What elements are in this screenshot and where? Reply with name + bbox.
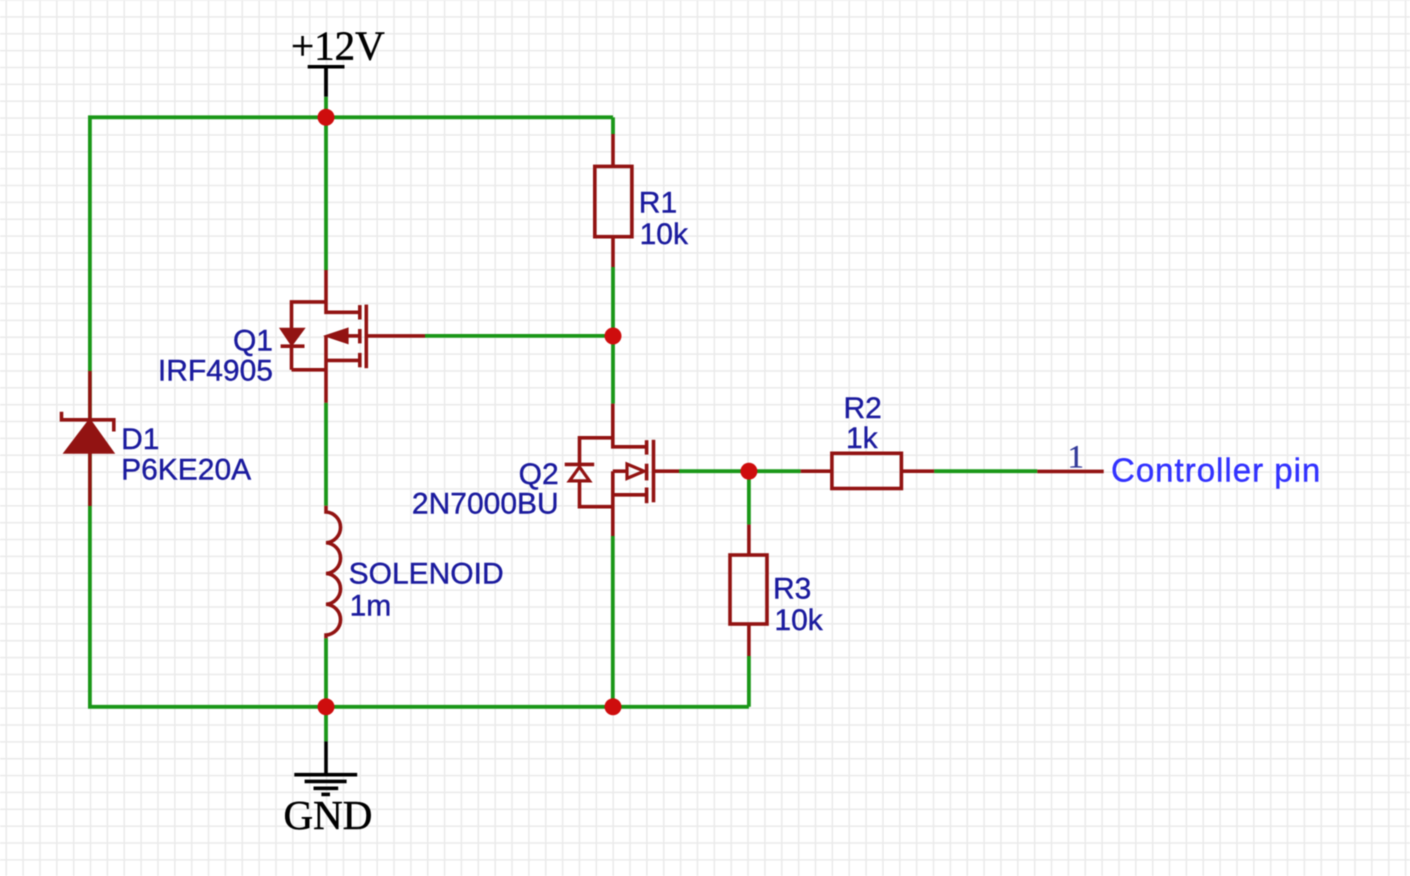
connector pin Controller bbox=[1037, 470, 1103, 474]
transistor Q2 bbox=[565, 404, 679, 536]
svg-text:Q2: Q2 bbox=[519, 458, 559, 491]
svg-text:P6KE20A: P6KE20A bbox=[121, 453, 251, 486]
diode D1 bbox=[62, 371, 114, 506]
wire R2 right to controller pin bbox=[934, 469, 1037, 473]
wire Q2 gate to node bbox=[679, 469, 749, 473]
transistor Q1 bbox=[281, 270, 425, 403]
svg-text:10k: 10k bbox=[774, 604, 823, 637]
svg-text:R3: R3 bbox=[773, 573, 811, 606]
junction node Q2 source bbox=[605, 698, 622, 715]
power +12V symbol bbox=[308, 67, 345, 97]
wire gnd stub bbox=[324, 707, 328, 742]
resistor R1 bbox=[595, 134, 632, 267]
junction node gnd bbox=[318, 698, 335, 715]
resistor R2 bbox=[801, 453, 934, 488]
wire Q2 source to bottom bus bbox=[611, 536, 615, 707]
wire Q1 gate to node bbox=[425, 334, 613, 338]
wire solenoid to bottom bus bbox=[324, 638, 328, 707]
wire top corner to R1 bbox=[611, 117, 615, 134]
wire Q1 source to solenoid bbox=[324, 403, 328, 506]
svg-text:D1: D1 bbox=[121, 423, 159, 456]
svg-text:+12V: +12V bbox=[291, 23, 385, 69]
wire +12V stub down to Q1 drain bbox=[324, 97, 328, 270]
svg-text:1k: 1k bbox=[846, 422, 879, 455]
resistor R3 bbox=[730, 525, 767, 656]
wire top/left/bottom bus bbox=[90, 117, 749, 707]
svg-text:R1: R1 bbox=[639, 187, 677, 220]
svg-text:1m: 1m bbox=[350, 590, 392, 623]
inductor SOLENOID bbox=[326, 506, 341, 639]
svg-text:GND: GND bbox=[284, 792, 373, 838]
svg-text:10k: 10k bbox=[640, 218, 689, 251]
junction node R2/R3 bbox=[740, 463, 757, 480]
svg-text:1: 1 bbox=[1068, 439, 1085, 475]
svg-text:SOLENOID: SOLENOID bbox=[349, 558, 504, 591]
ground symbol bbox=[294, 741, 357, 794]
svg-text:IRF4905: IRF4905 bbox=[158, 354, 273, 387]
svg-text:R2: R2 bbox=[844, 392, 882, 425]
svg-text:Q1: Q1 bbox=[233, 325, 273, 358]
wire node to R3 top bbox=[747, 471, 751, 524]
junction node +12V bbox=[318, 109, 335, 126]
svg-text:Controller pin: Controller pin bbox=[1111, 452, 1321, 489]
wire node to R2 left bbox=[749, 469, 801, 473]
wire R1 bottom to Q2 drain bbox=[611, 267, 615, 404]
junction node gate bbox=[605, 328, 622, 345]
wire R3 bottom to bus bbox=[747, 656, 751, 707]
svg-text:2N7000BU: 2N7000BU bbox=[412, 487, 559, 520]
